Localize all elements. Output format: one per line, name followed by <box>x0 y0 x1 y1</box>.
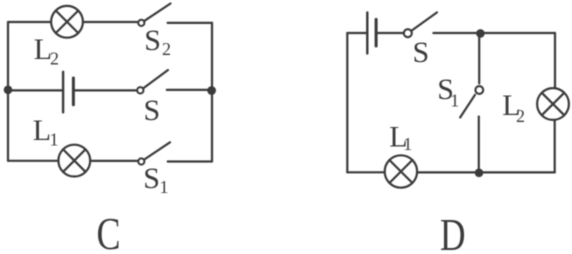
wire : C bottom branch, S1 to right rail <box>168 160 212 162</box>
svg-text:D: D <box>440 210 466 254</box>
svg-text:1: 1 <box>160 177 169 197</box>
battery (cell) in D <box>367 13 376 54</box>
wire : D right rail above lamp L2 <box>554 33 556 88</box>
lamp L2 (circle with X) <box>537 88 569 120</box>
label S1 of circuit C <box>143 162 168 197</box>
wire : D right rail below lamp L2 <box>554 121 556 173</box>
wire : C top branch, S2 to right rail <box>168 22 212 24</box>
wire : D bottom branch, lamp L1 to bottom-right corner <box>417 171 555 173</box>
svg-text:S: S <box>144 94 161 127</box>
node : D top junction <box>476 29 485 38</box>
label L1 of circuit D <box>389 120 412 154</box>
svg-text:S: S <box>413 36 430 69</box>
node : C right junction <box>207 86 216 95</box>
wire : C right rail <box>211 23 213 162</box>
label L2 of circuit D <box>502 89 525 126</box>
label L1 of circuit C <box>33 114 59 150</box>
svg-text:S: S <box>143 162 160 195</box>
label S1 of circuit D <box>437 73 459 110</box>
wire : D middle branch, below S1 to bottom junction <box>478 117 480 173</box>
node : C left junction <box>4 86 13 95</box>
svg-text:L: L <box>33 114 51 147</box>
svg-text:1: 1 <box>450 91 459 111</box>
switch S2 (open, hinge circle + lever) <box>138 4 170 27</box>
wire : D bottom branch, corner to lamp L1 <box>347 171 384 173</box>
wire : C top branch, lamp L2 to switch S2 <box>83 21 138 23</box>
wire : C middle branch, S to right junction <box>167 89 212 91</box>
svg-text:2: 2 <box>516 106 525 126</box>
wire : D top branch, corner to battery <box>347 32 367 34</box>
wire : D middle branch, top junction to switch S1 <box>478 33 480 83</box>
node : D bottom junction <box>475 169 484 178</box>
wire : D left rail <box>346 33 348 172</box>
switch S1 in D (open, hinge circle + lever) <box>460 86 483 117</box>
svg-text:1: 1 <box>50 130 59 150</box>
svg-text:2: 2 <box>50 48 59 68</box>
switch S in D (open, hinge circle + lever) <box>404 12 437 37</box>
wire : D top branch, battery to switch S <box>376 32 404 34</box>
lamp L2 (circle with X) <box>51 6 83 38</box>
battery (cell) in C <box>63 72 73 113</box>
svg-text:C: C <box>97 208 121 254</box>
wire : D top branch, S to top-right corner <box>433 32 555 34</box>
label S2 of circuit C <box>144 24 171 59</box>
wire : C bottom branch, lamp L1 to switch S1 <box>90 160 138 162</box>
wire : C left rail <box>7 22 9 161</box>
switch S1 (open, hinge circle + lever) <box>138 142 170 164</box>
lamp L1 (circle with X) <box>385 155 417 187</box>
svg-text:2: 2 <box>162 39 171 59</box>
svg-text:1: 1 <box>403 134 412 154</box>
wire : C middle branch, battery to switch S <box>73 89 136 91</box>
switch S (open, hinge circle + lever) <box>137 70 168 94</box>
wire : C middle branch, junction to battery <box>8 89 63 91</box>
svg-text:S: S <box>144 24 161 57</box>
wire : C bottom branch, rail to lamp L1 <box>8 160 59 162</box>
label L2 of circuit C <box>34 33 59 68</box>
lamp L1 (circle with X) <box>58 145 90 177</box>
wire : C top branch, corner to lamp L2 <box>8 21 50 23</box>
